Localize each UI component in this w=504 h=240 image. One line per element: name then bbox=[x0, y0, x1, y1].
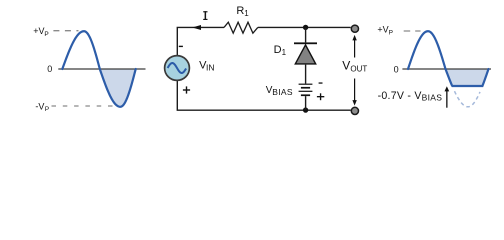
svg-text:P: P bbox=[44, 31, 48, 38]
svg-text:R: R bbox=[236, 5, 244, 17]
svg-text:+V: +V bbox=[377, 25, 388, 35]
svg-text:V: V bbox=[342, 58, 350, 72]
svg-text:1: 1 bbox=[282, 48, 287, 57]
svg-text:OUT: OUT bbox=[350, 65, 367, 74]
svg-text:-0.7V - V: -0.7V - V bbox=[378, 90, 423, 102]
svg-text:IN: IN bbox=[206, 63, 215, 73]
svg-text:BIAS: BIAS bbox=[272, 87, 293, 97]
svg-text:+V: +V bbox=[33, 26, 44, 36]
svg-text:BIAS: BIAS bbox=[422, 92, 443, 102]
svg-text:D: D bbox=[274, 44, 282, 56]
svg-text:P: P bbox=[45, 106, 49, 113]
svg-text:0: 0 bbox=[394, 64, 399, 74]
svg-text:-V: -V bbox=[35, 101, 44, 111]
svg-text:1: 1 bbox=[244, 9, 249, 18]
svg-text:0: 0 bbox=[47, 64, 52, 74]
svg-text:P: P bbox=[389, 29, 393, 36]
